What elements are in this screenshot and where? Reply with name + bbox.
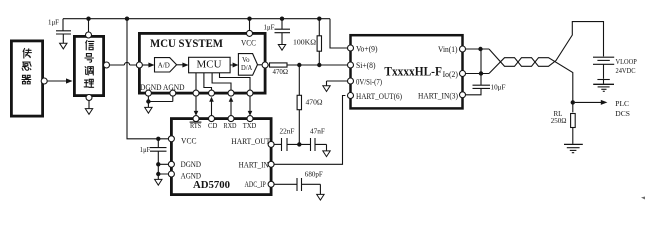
junction VCC node at AD5700 decoupling — [156, 137, 160, 141]
wire signal conditioner to MCU input with crossover hop — [110, 62, 137, 65]
svg-text:Si+(8): Si+(8) — [356, 61, 376, 70]
svg-text:DGND: DGND — [181, 160, 202, 169]
block sensor (CJK label) — [11, 41, 42, 116]
svg-text:VLOOP: VLOOP — [616, 57, 637, 66]
pin 0V/Si-(7) + label — [348, 78, 354, 84]
wire MCU to RTS (arrow down) — [194, 73, 199, 116]
svg-text:D/A: D/A — [241, 63, 253, 72]
pin MCU box output right — [262, 62, 268, 68]
svg-text:DCS: DCS — [615, 109, 630, 118]
wire DGND/AGND tie — [148, 96, 172, 107]
corner scan artifact bottom right — [641, 197, 645, 200]
svg-text:MCU SYSTEM: MCU SYSTEM — [150, 36, 223, 50]
capacitor C1 1uF — [48, 19, 71, 44]
wire Vin(1) to loop — [466, 48, 490, 50]
capacitor 10uF — [466, 49, 506, 95]
svg-text:ADC_IP: ADC_IP — [245, 180, 267, 189]
wire VCC rail drop to signal conditioner top pin — [88, 19, 90, 32]
wire Vo D/A to MCU box right pin — [258, 64, 263, 66]
svg-text:22nF: 22nF — [280, 128, 295, 136]
battery VLOOP 24VDC — [593, 57, 637, 84]
svg-text:250Ω: 250Ω — [551, 117, 567, 125]
pin AD5700 HART_OUT + label — [268, 141, 274, 147]
wire VCC drop line to AD5700 VCC pin — [127, 19, 168, 139]
junction on VCC rail above signal conditioner — [86, 17, 90, 21]
wire MCU to Vo D/A with arrowhead — [230, 64, 233, 66]
svg-text:RXD: RXD — [224, 121, 237, 130]
junction PLC tap node — [571, 100, 575, 104]
svg-text:TXD: TXD — [243, 121, 257, 130]
svg-text:CD: CD — [208, 121, 218, 130]
ground battery (earth) — [593, 84, 614, 91]
pin AD5700 AGND + label — [168, 171, 174, 177]
ground C2 — [278, 45, 285, 51]
wire Io(2) to loop — [466, 73, 490, 75]
junction Si+ row with 470 vertical — [297, 63, 301, 67]
wire twisted pair line B — [489, 58, 573, 113]
AD5700 box — [171, 119, 271, 195]
pin AD5700 ADC_IP + label — [268, 181, 274, 187]
capacitor C2 1uF — [264, 17, 291, 45]
pin AD5700 DGND + label — [168, 161, 174, 167]
TxxxxHL-F box — [351, 35, 463, 108]
pin HART_OUT(6) + label — [348, 93, 354, 99]
pin AD5700 HART_IN + label — [268, 161, 274, 167]
svg-text:VCC: VCC — [181, 137, 197, 146]
svg-text:MCU: MCU — [197, 59, 223, 70]
ground 47nF — [323, 144, 330, 156]
wire HART_IN of AD5700 to HART_OUT(6) of modem — [274, 96, 345, 165]
svg-text:10μF: 10μF — [491, 84, 506, 92]
wire RXD to MCU (arrow up) — [212, 73, 233, 116]
pin Vin(1) + label — [460, 46, 466, 52]
pins AD5700 top — [193, 116, 199, 122]
pin Si+(8) + label — [348, 62, 354, 68]
wire AGND pin to node — [158, 174, 168, 179]
svg-text:PLC: PLC — [615, 99, 629, 108]
wire 0V/Si- to ground — [327, 81, 348, 86]
svg-text:AGND: AGND — [181, 171, 202, 180]
svg-text:Vo+(9): Vo+(9) — [356, 45, 378, 54]
wire twisted pair line A — [489, 22, 604, 67]
pins MCU bottom DGND AGND — [145, 90, 151, 96]
block A/D converter — [155, 58, 177, 72]
resistor 470ohm vertical — [297, 65, 322, 144]
svg-text:Vin(1): Vin(1) — [438, 45, 458, 54]
svg-text:24VDC: 24VDC — [616, 66, 636, 75]
junction DGND ground node — [146, 99, 150, 103]
resistor 470ohm horizontal (D/A output) — [268, 63, 347, 76]
pin AD5700 VCC + label — [168, 136, 174, 142]
wire DGND pin to node — [158, 164, 168, 174]
svg-text:Io(2): Io(2) — [443, 70, 459, 79]
svg-text:470Ω: 470Ω — [273, 68, 289, 76]
ground AD5700 — [155, 179, 162, 185]
wire A/D to MCU with arrowhead — [177, 64, 183, 66]
wire CD to MCU (arrow up) — [204, 73, 214, 116]
pin terminal sensor output — [41, 78, 47, 84]
svg-text:A/D: A/D — [158, 61, 170, 69]
svg-text:1μF: 1μF — [140, 146, 151, 154]
svg-text:1μF: 1μF — [264, 23, 275, 31]
svg-text:HART_OUT: HART_OUT — [231, 137, 270, 146]
junction VCC rail MCU/AD5700 drop — [125, 17, 129, 21]
junction DGND node — [156, 162, 160, 166]
ground MCU digital/analog — [145, 107, 152, 113]
svg-text:VCC: VCC — [241, 39, 256, 48]
svg-text:HART_IN: HART_IN — [239, 160, 269, 169]
svg-text:100KΩ: 100KΩ — [293, 39, 316, 47]
resistor RL 250ohm — [551, 110, 575, 144]
pin terminal signal conditioner right — [104, 62, 110, 68]
svg-text:0V/Si-(7): 0V/Si-(7) — [356, 77, 382, 86]
capacitor 22nF — [280, 128, 300, 152]
svg-text:1μF: 1μF — [48, 19, 59, 27]
block Vo D/A — [238, 54, 257, 76]
pin MCU analog input — [136, 62, 142, 68]
block signal conditioner (CJK label) — [74, 36, 103, 95]
wire HART_OUT row — [274, 143, 281, 145]
ground signal conditioner — [85, 101, 92, 115]
svg-text:470Ω: 470Ω — [306, 99, 323, 107]
pin terminal signal conditioner bottom — [86, 95, 92, 101]
capacitor C3 1uF AD5700 decoupling — [140, 139, 167, 165]
svg-text:TxxxxHL-F: TxxxxHL-F — [384, 65, 442, 79]
svg-text:47nF: 47nF — [310, 128, 325, 136]
pin Vo+(9) + label — [348, 45, 354, 51]
pin terminal signal conditioner top — [86, 32, 92, 38]
ground RL (earth) — [564, 144, 583, 152]
pin Io(2) + label — [460, 71, 466, 77]
ground 680pF — [317, 184, 324, 200]
pin MCU VCC top — [247, 30, 253, 36]
block MCU — [189, 57, 231, 73]
svg-text:680pF: 680pF — [305, 171, 323, 179]
junction node 22nF/47nF/470 — [297, 142, 301, 146]
pin HART_IN(3) + label — [460, 92, 466, 98]
wire VCC rail to MCU VCC pin — [247, 17, 251, 21]
junction AGND node — [156, 172, 160, 176]
junction Io node — [479, 71, 483, 75]
wire MCU pin to A/D with arrowhead — [142, 64, 149, 66]
capacitor 680pF — [297, 171, 323, 192]
svg-text:HART_IN(3): HART_IN(3) — [418, 92, 458, 101]
arrow to PLC DCS — [575, 99, 630, 118]
svg-text:HART_OUT(6): HART_OUT(6) — [356, 92, 402, 101]
wire VCC top rail — [63, 18, 330, 20]
MCU SYSTEM box — [139, 33, 265, 93]
svg-text:AD5700: AD5700 — [193, 179, 230, 191]
wire sensor to signal conditioner — [47, 80, 67, 82]
junction Vin node — [478, 47, 482, 51]
wire ADC_IP row — [274, 183, 297, 185]
wire MCU to TXD (arrow down) — [220, 73, 253, 116]
junction Si+ row with 100K — [317, 63, 321, 67]
resistor 100Kohm — [293, 17, 322, 66]
ground for C1 — [60, 43, 67, 49]
pin labels RTS CD RXD TXD — [190, 121, 257, 130]
wire VCC rail corner down to Vo+(9) — [330, 19, 347, 48]
capacitor 47nF — [299, 128, 326, 151]
ground 0V/Si- — [323, 86, 330, 92]
pins MCU box bottom RTS CD RXD TXD — [193, 90, 199, 96]
